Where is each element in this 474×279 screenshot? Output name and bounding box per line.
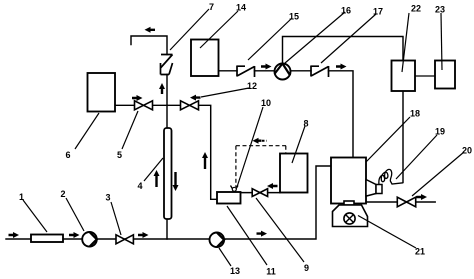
svg-text:2: 2 [60,189,65,199]
svg-text:12: 12 [247,81,257,91]
svg-text:10: 10 [261,98,271,108]
svg-text:8: 8 [303,119,308,129]
svg-text:4: 4 [137,181,142,191]
svg-text:17: 17 [373,7,383,17]
svg-text:3: 3 [105,193,110,203]
svg-text:20: 20 [462,146,472,156]
svg-text:13: 13 [230,266,240,276]
svg-text:23: 23 [435,5,445,15]
svg-text:19: 19 [435,127,445,137]
svg-text:14: 14 [236,3,246,13]
svg-text:16: 16 [341,6,351,16]
svg-text:18: 18 [410,109,420,119]
svg-text:6: 6 [65,150,70,160]
svg-text:7: 7 [209,2,214,12]
svg-text:21: 21 [415,247,425,257]
svg-text:15: 15 [289,12,299,22]
svg-text:22: 22 [411,4,421,14]
svg-text:11: 11 [266,267,276,277]
svg-text:1: 1 [19,192,24,202]
svg-text:9: 9 [304,263,309,273]
svg-text:5: 5 [117,150,122,160]
